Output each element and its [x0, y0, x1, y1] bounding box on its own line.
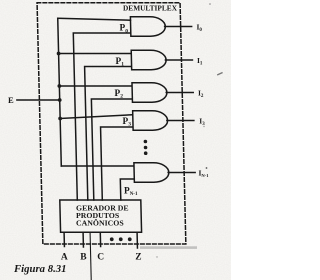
svg-text:DEMULTIPLEX: DEMULTIPLEX [123, 3, 177, 12]
svg-text:C: C [97, 253, 104, 263]
wire: output I3 [167, 120, 194, 122]
wire: bus to gate U2 top input [59, 53, 131, 55]
wire: PN-1 from generator to gate U5 lower input [120, 179, 134, 200]
wire: E input horizontal [17, 99, 60, 101]
node: bus junction at E input [58, 98, 62, 102]
and-gate U1 (output I0) [130, 17, 165, 36]
wire: output I1 [165, 59, 192, 61]
svg-text:Figura 8.31: Figura 8.31 [13, 264, 67, 275]
node: bus junction at gate U4 branch [58, 117, 62, 121]
wire: P2 from generator to gate U3 lower input [91, 99, 133, 200]
wire: output IN-1 [168, 172, 195, 174]
wire: E vertical bus [58, 18, 62, 166]
and-gate U3 (output I2) [132, 83, 167, 102]
scan noise specks [140, 3, 223, 257]
wire: P0 from generator to gate U1 lower input [73, 33, 134, 200]
wire: input stub B [82, 232, 84, 247]
wire: P1 from generator to gate U2 lower input [85, 67, 134, 201]
wire: bus to gate U3 top input [59, 85, 131, 87]
wire: output I2 [166, 92, 193, 94]
wire: stray vertical line below box [90, 232, 91, 280]
svg-text:B: B [80, 253, 87, 263]
ellipsis between input C and Z [110, 237, 114, 241]
wire: output I0 [165, 26, 192, 28]
wire: input stub A [63, 232, 65, 246]
and-gate U5 (output IN-1) [134, 163, 169, 182]
svg-text:CANÔNICOS: CANÔNICOS [76, 218, 124, 228]
and-gate U4 (output I3) [133, 111, 168, 130]
svg-text:E: E [8, 95, 14, 105]
svg-text:A: A [61, 253, 68, 263]
wire: bus to gate U1 top input [58, 18, 131, 20]
and-gate U2 (output I1) [131, 50, 166, 69]
dashed demultiplexer boundary box [37, 3, 186, 244]
wire: input stub Z [136, 232, 138, 248]
generator of canonical products box [60, 200, 142, 232]
svg-text:Z: Z [135, 253, 141, 263]
node: bus junction at gate U2 branch [57, 52, 61, 56]
wire: input stub C [99, 232, 101, 246]
ellipsis between gate U4 and U5 [144, 140, 148, 144]
wire: bus to gate U5 top input [61, 165, 133, 167]
wire: bus to gate U4 top input [60, 115, 132, 119]
node: bus junction at gate U3 branch [57, 84, 61, 88]
wire: P3 from generator to gate U4 lower input [101, 127, 134, 200]
